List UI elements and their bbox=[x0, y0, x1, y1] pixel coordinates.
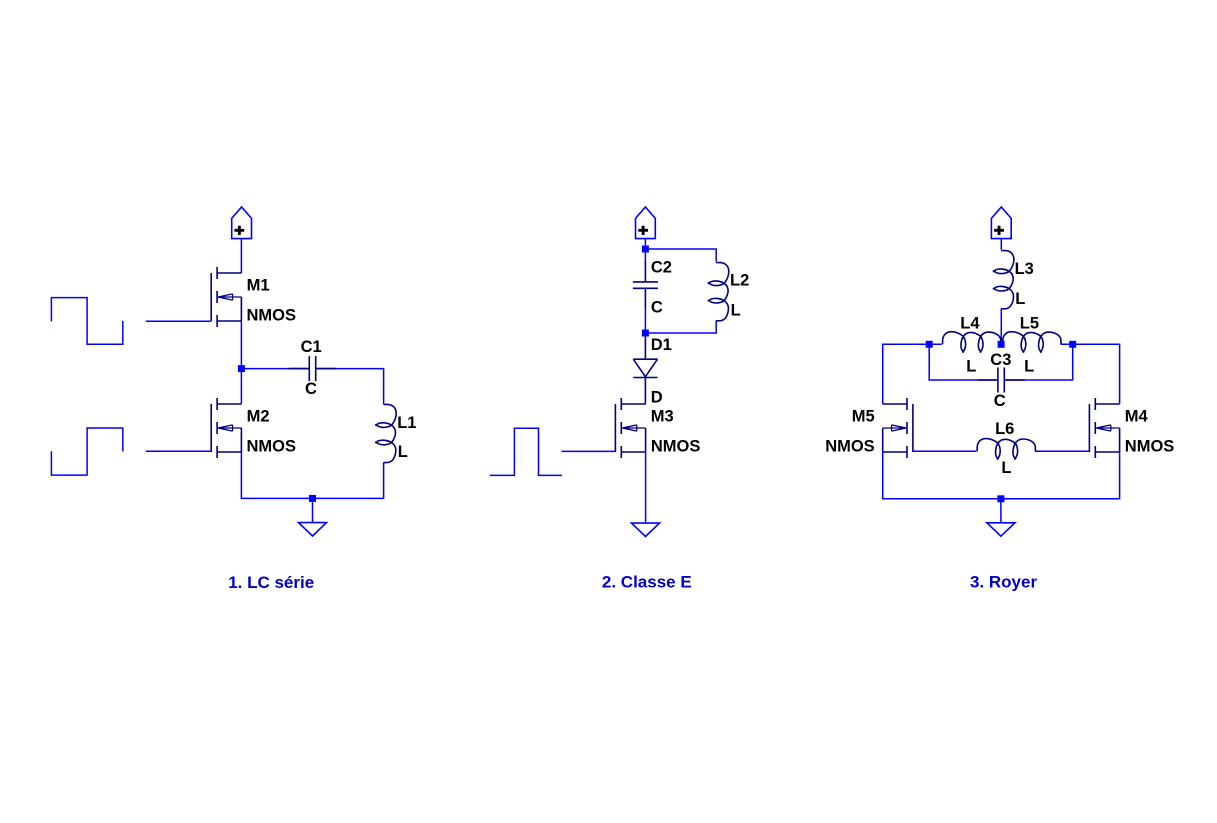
svg-text:NMOS: NMOS bbox=[825, 438, 875, 456]
svg-text:C: C bbox=[994, 392, 1006, 410]
svg-text:D: D bbox=[651, 389, 663, 407]
svg-text:1. LC série: 1. LC série bbox=[228, 573, 314, 592]
svg-text:M1: M1 bbox=[247, 277, 270, 295]
svg-text:M2: M2 bbox=[247, 408, 270, 426]
svg-text:M4: M4 bbox=[1125, 408, 1149, 426]
svg-text:L: L bbox=[1001, 459, 1011, 477]
svg-text:M3: M3 bbox=[651, 408, 674, 426]
svg-text:2. Classe E: 2. Classe E bbox=[602, 573, 692, 592]
svg-text:NMOS: NMOS bbox=[651, 438, 701, 456]
svg-text:L4: L4 bbox=[960, 315, 980, 333]
svg-text:C2: C2 bbox=[651, 259, 672, 277]
svg-text:3. Royer: 3. Royer bbox=[970, 572, 1037, 591]
svg-text:M5: M5 bbox=[852, 408, 875, 426]
svg-text:L: L bbox=[1015, 290, 1025, 308]
svg-text:L1: L1 bbox=[397, 414, 416, 432]
svg-text:L2: L2 bbox=[730, 272, 749, 290]
svg-text:NMOS: NMOS bbox=[247, 307, 297, 325]
svg-text:C: C bbox=[651, 299, 663, 317]
svg-text:L: L bbox=[398, 443, 408, 461]
svg-text:L: L bbox=[731, 302, 741, 320]
svg-text:L3: L3 bbox=[1015, 260, 1034, 278]
svg-text:C3: C3 bbox=[990, 351, 1011, 369]
svg-text:NMOS: NMOS bbox=[1125, 438, 1175, 456]
svg-text:NMOS: NMOS bbox=[247, 438, 297, 456]
svg-text:D1: D1 bbox=[651, 336, 672, 354]
svg-text:C1: C1 bbox=[301, 338, 322, 356]
svg-text:C: C bbox=[305, 380, 317, 398]
svg-text:L: L bbox=[966, 357, 976, 375]
svg-text:L: L bbox=[1024, 357, 1034, 375]
svg-text:L5: L5 bbox=[1020, 315, 1039, 333]
svg-text:L6: L6 bbox=[995, 420, 1014, 438]
